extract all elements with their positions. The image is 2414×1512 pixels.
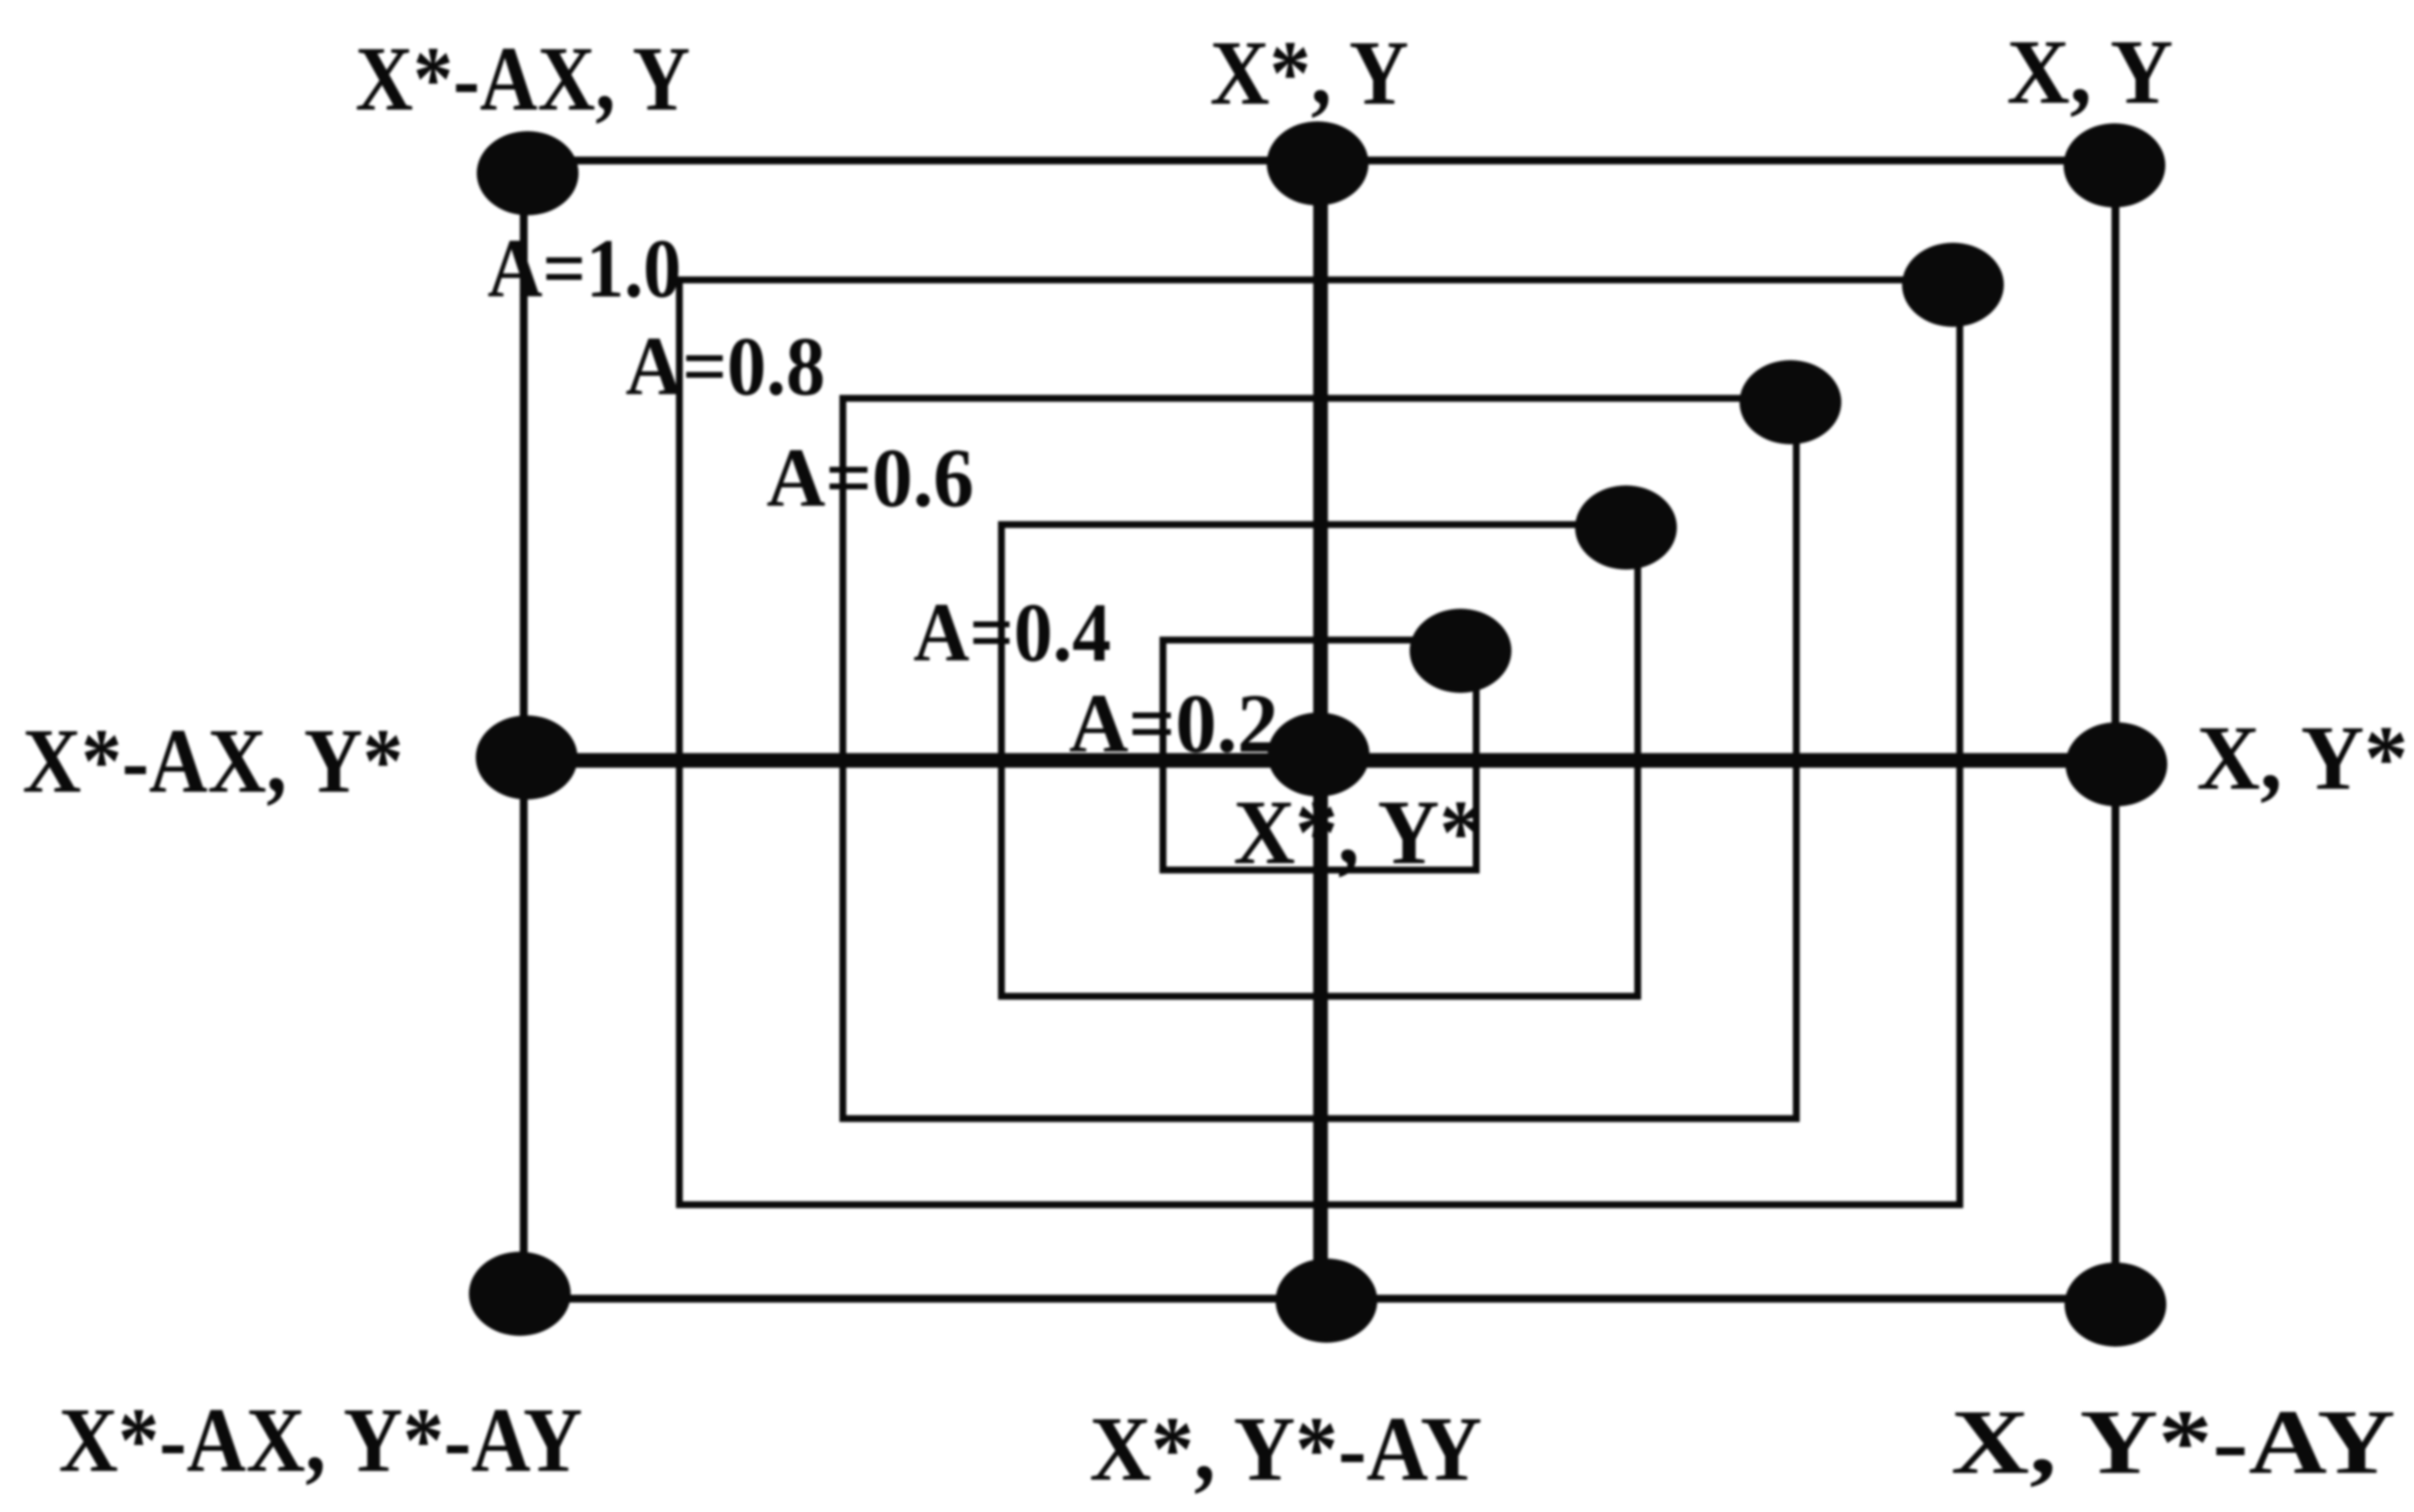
- svg-text:A=0.4: A=0.4: [913, 585, 1111, 679]
- svg-text:A=0.6: A=0.6: [766, 431, 974, 525]
- svg-text:X, Y: X, Y: [2007, 22, 2173, 123]
- svg-text:X, Y*: X, Y*: [2197, 708, 2408, 809]
- svg-text:X, Y*-AY: X, Y*-AY: [1951, 1392, 2395, 1493]
- svg-text:X*-AX, Y: X*-AX, Y: [355, 28, 690, 130]
- svg-text:A=1.0: A=1.0: [487, 221, 681, 315]
- svg-text:A=0.2: A=0.2: [1069, 676, 1278, 770]
- svg-text:X*-AX, Y*-AY: X*-AX, Y*-AY: [59, 1390, 582, 1491]
- svg-text:X*, Y*-AY: X*, Y*-AY: [1090, 1398, 1482, 1500]
- svg-text:X*-AX, Y*: X*-AX, Y*: [23, 710, 403, 812]
- svg-text:A=0.8: A=0.8: [626, 319, 825, 413]
- svg-text:X*, Y: X*, Y: [1210, 23, 1409, 124]
- svg-text:X*, Y*: X*, Y*: [1233, 782, 1482, 884]
